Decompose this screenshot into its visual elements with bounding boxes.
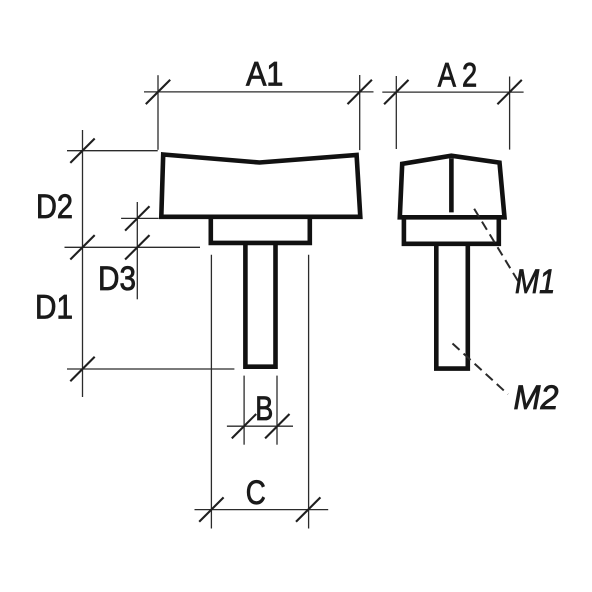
svg-text:D3: D3: [98, 260, 136, 298]
dimension D2 / D1 vertical line: [35, 130, 234, 397]
svg-text:M1: M1: [515, 263, 555, 301]
dimension D3 (neck height): [98, 202, 159, 299]
svg-text:B: B: [255, 390, 273, 428]
dimension A2 (side knob width): [382, 56, 523, 149]
dimension A1 (front knob width): [144, 55, 374, 150]
svg-text:A1: A1: [246, 55, 283, 93]
side view threaded stem: [436, 244, 468, 368]
svg-text:C: C: [246, 474, 266, 512]
svg-text:D2: D2: [36, 188, 73, 226]
side view wing knob head: [400, 156, 505, 218]
side view neck: [404, 218, 499, 244]
leader M2 (stem thread label): [453, 344, 559, 418]
svg-text:D1: D1: [35, 289, 73, 327]
front view threaded stem: [245, 243, 275, 367]
front view neck: [211, 217, 310, 243]
dimension B (stem diameter): [227, 376, 293, 445]
svg-text:M2: M2: [514, 379, 559, 417]
svg-text:A 2: A 2: [438, 56, 478, 94]
side view wing slot center line: [449, 158, 454, 212]
leader M1 (knob thread label): [472, 205, 555, 301]
front view wing knob head: [161, 155, 360, 217]
dimension C (neck width): [195, 255, 329, 529]
